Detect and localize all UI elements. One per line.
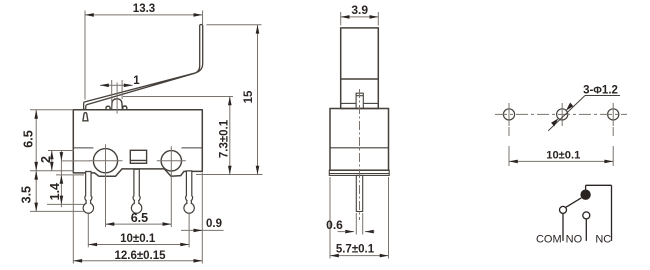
svg-text:12.6±0.15: 12.6±0.15: [114, 250, 166, 262]
svg-text:3.5: 3.5: [19, 186, 33, 203]
svg-text:10±0.1: 10±0.1: [120, 233, 156, 245]
svg-text:1.4: 1.4: [48, 183, 62, 200]
svg-text:13.3: 13.3: [133, 3, 155, 15]
svg-text:3.9: 3.9: [351, 3, 368, 17]
svg-text:10±0.1: 10±0.1: [546, 149, 580, 161]
svg-text:15: 15: [243, 90, 255, 103]
svg-text:NO: NO: [566, 234, 583, 246]
svg-text:7.3±0.1: 7.3±0.1: [219, 119, 231, 158]
svg-text:0.9: 0.9: [206, 218, 222, 230]
svg-text:6.5: 6.5: [21, 130, 35, 147]
svg-text:3-Φ1.2: 3-Φ1.2: [583, 84, 618, 96]
svg-text:5.7±0.1: 5.7±0.1: [336, 244, 375, 256]
svg-text:6.5: 6.5: [131, 211, 148, 225]
svg-text:COM: COM: [536, 234, 562, 246]
svg-text:1: 1: [133, 75, 140, 87]
svg-text:2: 2: [39, 156, 53, 163]
svg-text:0.6: 0.6: [326, 218, 343, 232]
svg-text:NC: NC: [595, 234, 611, 246]
